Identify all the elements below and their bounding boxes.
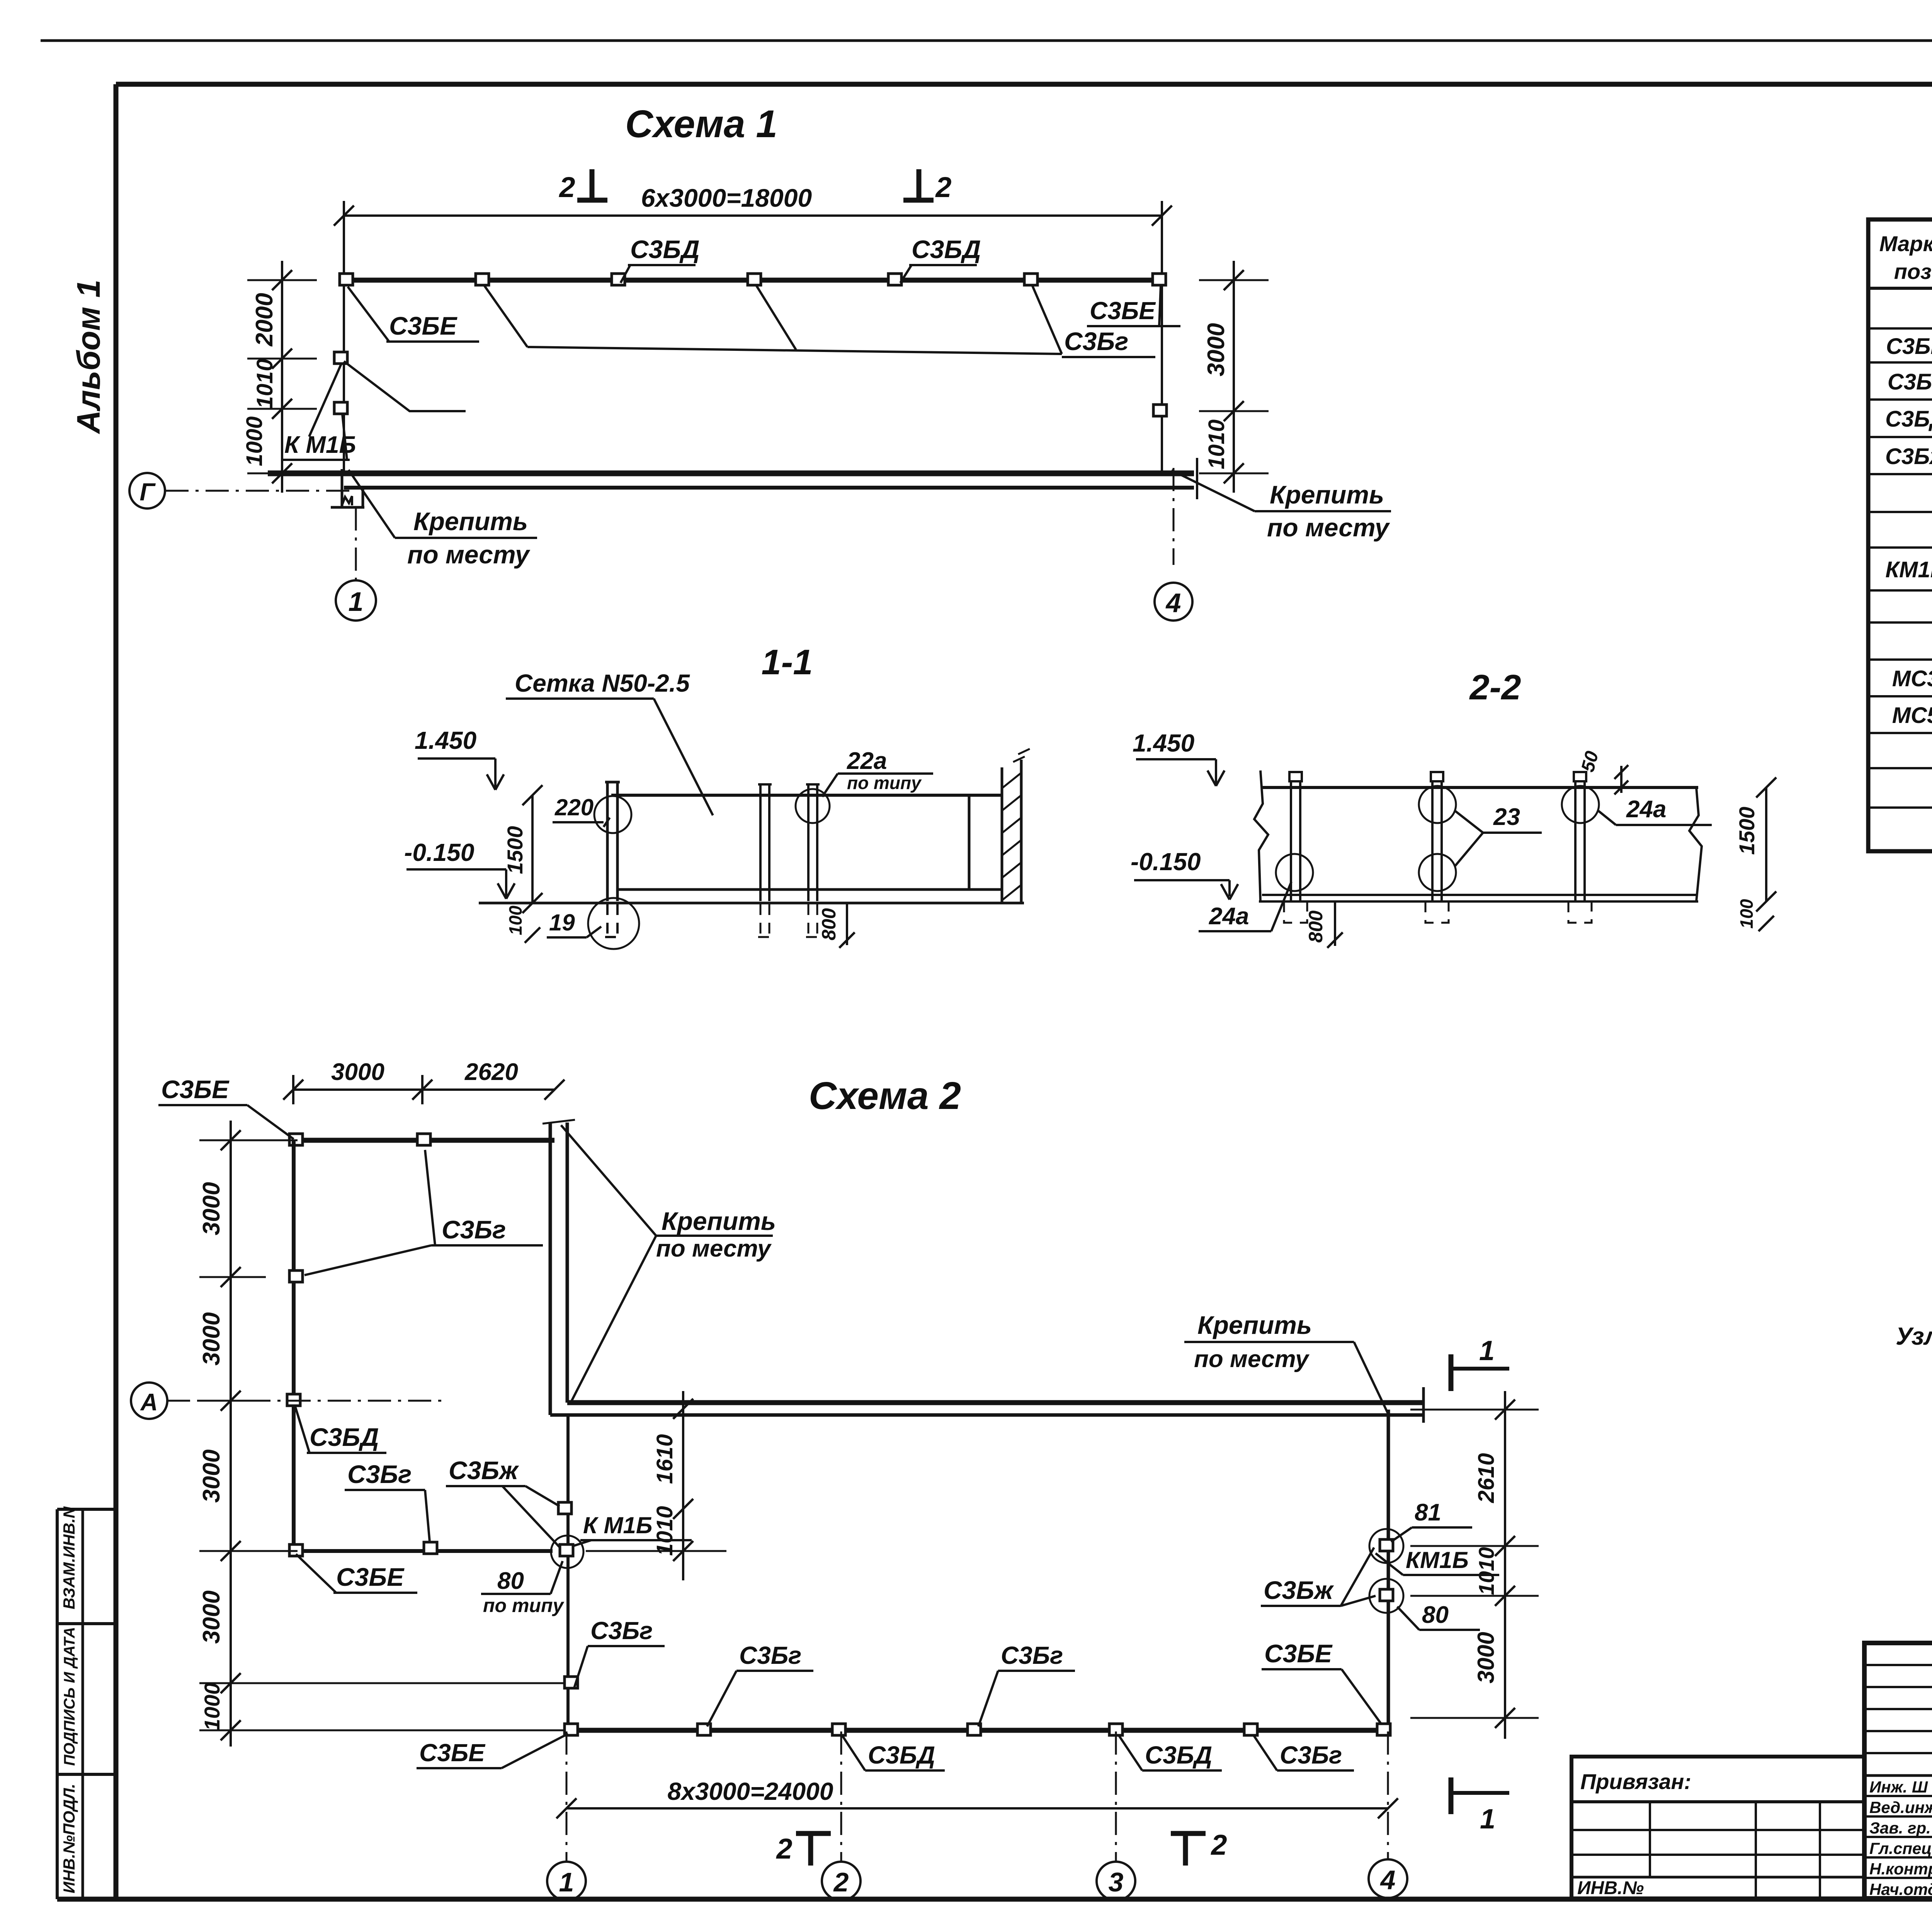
svg-text:Сетка N50-2.5: Сетка N50-2.5 bbox=[515, 669, 690, 697]
svg-text:800: 800 bbox=[1305, 910, 1327, 943]
section 2-2 dim 100 bbox=[1759, 916, 1774, 931]
svg-text:100: 100 bbox=[1736, 899, 1757, 929]
schema 1 bottom wall second line bbox=[344, 486, 1194, 490]
svg-text:Зав. гр.: Зав. гр. bbox=[1869, 1819, 1931, 1837]
section 2-2 circle post1 bottom bbox=[1276, 854, 1313, 891]
svg-text:Схема 2: Схема 2 bbox=[809, 1074, 961, 1117]
section 1-1 circle at third post bbox=[796, 789, 830, 823]
schema 2 left fence posts bbox=[289, 1270, 303, 1282]
svg-text:80: 80 bbox=[497, 1568, 524, 1594]
section 1-1 third post bbox=[807, 784, 810, 901]
schema 2 left dimension line bbox=[230, 1121, 232, 1747]
svg-text:1010: 1010 bbox=[1474, 1547, 1498, 1595]
section 1-1 mesh bottom rail bbox=[617, 888, 1002, 891]
section 1-1 dim 100 bbox=[525, 927, 540, 943]
svg-text:Крепить: Крепить bbox=[662, 1207, 776, 1235]
schema 2 left fence vertical bbox=[292, 1140, 296, 1551]
schema 1 bottom wall thick line bbox=[268, 471, 1194, 476]
svg-text:КМ1Б: КМ1Б bbox=[1885, 557, 1932, 582]
title block small grid rows upper bbox=[1864, 1664, 1932, 1666]
svg-text:2620: 2620 bbox=[464, 1059, 518, 1085]
svg-text:Схема 1: Схема 1 bbox=[625, 102, 777, 146]
schema 2 bottom fence posts bbox=[565, 1724, 578, 1735]
svg-text:3000: 3000 bbox=[1473, 1632, 1499, 1683]
schema 1 gate bracket bottom left bbox=[341, 469, 344, 507]
schema 2 right fence vertical bbox=[1387, 1410, 1390, 1730]
schema 2 long horizontal upper line bbox=[567, 1400, 1423, 1405]
svg-text:Крепить: Крепить bbox=[413, 507, 528, 536]
section 2-2 left break line bbox=[1254, 770, 1268, 901]
privyazan grid rows bbox=[1571, 1829, 1864, 1831]
svg-text:по месту: по месту bbox=[1194, 1346, 1310, 1372]
svg-text:по типу: по типу bbox=[483, 1595, 565, 1616]
svg-text:3000: 3000 bbox=[1203, 323, 1230, 376]
svg-text:по месту: по месту bbox=[407, 540, 531, 569]
section 2-2 circle post3 top bbox=[1562, 786, 1599, 823]
svg-text:С3Бг: С3Бг bbox=[1888, 369, 1932, 395]
svg-text:Гл.спец.: Гл.спец. bbox=[1869, 1839, 1932, 1857]
schema 2 bottom fence line bbox=[568, 1728, 1388, 1733]
schema 1 gate leaf line bbox=[344, 361, 466, 411]
section 1-1 wall hatched bbox=[1001, 767, 1003, 903]
svg-text:С3Бж: С3Бж bbox=[1885, 444, 1932, 469]
schema 2 gate double vertical right bbox=[566, 1122, 569, 1403]
svg-text:1010: 1010 bbox=[252, 359, 277, 408]
schema 1 right dimension line bbox=[1233, 261, 1235, 493]
svg-text:МС5: МС5 bbox=[1892, 703, 1932, 728]
svg-text:МС3: МС3 bbox=[1892, 666, 1932, 691]
svg-text:81: 81 bbox=[1415, 1499, 1441, 1526]
svg-text:С3БЕ: С3БЕ bbox=[389, 311, 457, 340]
svg-text:19: 19 bbox=[549, 910, 575, 935]
svg-text:2: 2 bbox=[935, 171, 951, 203]
privyazan box border bbox=[1571, 1757, 1864, 1898]
svg-text:3000: 3000 bbox=[198, 1590, 225, 1644]
svg-text:2: 2 bbox=[833, 1867, 849, 1897]
schema 2 section mark 2 left bbox=[808, 1833, 813, 1866]
svg-text:1500: 1500 bbox=[1735, 807, 1759, 855]
schema 1 axis circle 1 bbox=[336, 580, 376, 621]
schema 1 fence left vertical bbox=[343, 206, 345, 474]
svg-text:С3БД: С3БД bbox=[630, 235, 700, 264]
schema 1 gate posts left bbox=[334, 352, 347, 364]
schema 2 axis A dash-dot bbox=[167, 1400, 448, 1402]
svg-text:1010: 1010 bbox=[652, 1506, 677, 1556]
schema 2 axis circle 2 bbox=[840, 1731, 842, 1862]
schema 1 top dimension line 6x3000=18000 bbox=[344, 214, 1162, 217]
svg-text:Н.контр.: Н.контр. bbox=[1869, 1860, 1932, 1878]
svg-text:С3БЕ: С3БЕ bbox=[419, 1739, 486, 1767]
schema 2 long horizontal lower line bbox=[550, 1413, 1423, 1417]
svg-text:1010: 1010 bbox=[1204, 419, 1229, 469]
schema 2 upper fence top line bbox=[294, 1138, 554, 1143]
schema 2 lower-left fence horizontal bbox=[294, 1549, 553, 1553]
section 2-2 dim 800 bbox=[1334, 901, 1336, 946]
svg-text:4: 4 bbox=[1380, 1865, 1396, 1895]
svg-text:С3Бж: С3Бж bbox=[1264, 1576, 1334, 1604]
svg-text:2-2: 2-2 bbox=[1469, 668, 1521, 707]
svg-text:С3БД: С3БД bbox=[912, 235, 981, 264]
section 1-1 dim 800 bbox=[846, 903, 848, 945]
left stamp strip boxes bbox=[57, 1508, 116, 1511]
svg-text:1000: 1000 bbox=[242, 416, 267, 466]
section 1-1 middle post bbox=[759, 784, 762, 901]
svg-text:Вед.инж: Вед.инж bbox=[1869, 1798, 1932, 1816]
svg-text:по месту: по месту bbox=[656, 1235, 772, 1262]
svg-text:24а: 24а bbox=[1626, 796, 1666, 823]
privyazan grid columns bbox=[1649, 1802, 1651, 1877]
privyazan header line bbox=[1571, 1800, 1864, 1803]
section 2-2 ground double line bbox=[1262, 894, 1696, 896]
svg-text:8х3000=24000: 8х3000=24000 bbox=[668, 1777, 833, 1805]
section 2-2 right break line bbox=[1689, 787, 1702, 901]
section 1-1 mesh right edge bbox=[968, 795, 971, 889]
svg-text:1: 1 bbox=[1479, 1335, 1495, 1366]
svg-text:-0.150: -0.150 bbox=[1131, 848, 1201, 876]
sheet top edge line bbox=[41, 39, 1932, 42]
svg-text:КМ1Б: КМ1Б bbox=[1406, 1547, 1469, 1573]
svg-text:-0.150: -0.150 bbox=[404, 838, 474, 866]
title block signature rows bbox=[1864, 1795, 1932, 1797]
drawing frame bbox=[114, 84, 119, 1899]
schema 2 axis circle 4 bbox=[1387, 1731, 1389, 1859]
svg-text:100: 100 bbox=[505, 905, 526, 935]
spec table header bottom line bbox=[1868, 287, 1932, 290]
svg-text:1610: 1610 bbox=[652, 1434, 677, 1484]
svg-text:220: 220 bbox=[554, 794, 594, 820]
schema 2 section mark 1 bottom bbox=[1449, 1777, 1454, 1814]
schema 2 gate break top bbox=[543, 1120, 575, 1124]
svg-text:ПОДПИСЬ И ДАТА: ПОДПИСЬ И ДАТА bbox=[61, 1627, 78, 1766]
svg-text:3000: 3000 bbox=[331, 1059, 384, 1085]
schema 2 gate lower vertical bbox=[566, 1415, 570, 1730]
svg-text:С3БЕ: С3БЕ bbox=[1264, 1639, 1333, 1668]
svg-text:Крепить: Крепить bbox=[1197, 1311, 1312, 1339]
svg-text:1: 1 bbox=[1480, 1804, 1495, 1835]
svg-text:6х3000=18000: 6х3000=18000 bbox=[641, 184, 812, 212]
schema 1 left dimension line bbox=[281, 261, 283, 493]
svg-text:1.450: 1.450 bbox=[415, 726, 476, 754]
schema 2 top dimension line bbox=[293, 1088, 554, 1091]
schema 2 section mark 1 top bbox=[1449, 1354, 1454, 1391]
svg-text:С3БЕ: С3БЕ bbox=[1886, 334, 1932, 359]
svg-text:С3БЕ: С3БЕ bbox=[336, 1563, 405, 1591]
title block outer border bbox=[1864, 1643, 1932, 1898]
svg-text:ИНВ.№ПОДЛ.: ИНВ.№ПОДЛ. bbox=[60, 1784, 78, 1893]
svg-text:1-1: 1-1 bbox=[762, 643, 813, 682]
svg-text:4: 4 bbox=[1165, 588, 1181, 618]
schema 2 right circled posts bbox=[1369, 1529, 1403, 1563]
svg-text:С3Бг: С3Бг bbox=[739, 1641, 801, 1669]
svg-text:22а: 22а bbox=[847, 748, 887, 774]
svg-text:С3Бг: С3Бг bbox=[347, 1460, 412, 1488]
schema 1 section mark 2 left bbox=[590, 169, 595, 200]
schema 2 gate dimension line bbox=[682, 1391, 684, 1580]
schema 2 bottom dimension line 8x3000 bbox=[566, 1807, 1388, 1810]
svg-text:Узлы замаркированы по серии: Узлы замаркированы по серии 3.017-1 вып.… bbox=[1896, 1322, 1932, 1350]
svg-text:3000: 3000 bbox=[198, 1312, 225, 1366]
svg-text:поз.: поз. bbox=[1894, 259, 1932, 284]
svg-text:К М1Б: К М1Б bbox=[583, 1512, 652, 1538]
svg-text:Марка,: Марка, bbox=[1879, 231, 1932, 256]
schema 1 bottom wall right end tick bbox=[1196, 458, 1198, 499]
schema 1 axis G circle bbox=[129, 473, 165, 509]
svg-text:С3Бг: С3Бг bbox=[590, 1617, 653, 1645]
section 1-1 post circle upper bbox=[594, 796, 631, 833]
schema 1 fence top line bbox=[344, 278, 1162, 283]
svg-text:С3БД: С3БД bbox=[1145, 1741, 1212, 1769]
svg-text:Г: Г bbox=[139, 478, 156, 506]
schema 1 section mark 2 right bbox=[917, 169, 922, 200]
section 1-1 ground line bbox=[479, 902, 1024, 905]
svg-text:Нач.отд.: Нач.отд. bbox=[1869, 1880, 1932, 1898]
section 2-2 circle post2 top bbox=[1419, 786, 1456, 823]
svg-text:ИНВ.№: ИНВ.№ bbox=[1577, 1878, 1644, 1898]
schema 1 axis 4 dash-dot bbox=[1173, 468, 1175, 565]
svg-text:1500: 1500 bbox=[503, 826, 527, 874]
svg-text:1.450: 1.450 bbox=[1133, 729, 1194, 757]
svg-text:С3Бг: С3Бг bbox=[442, 1215, 506, 1244]
svg-text:С3БД: С3БД bbox=[868, 1741, 935, 1769]
section 2-2 posts bbox=[1290, 781, 1292, 900]
section 2-2 top rail bbox=[1262, 786, 1698, 789]
svg-text:2610: 2610 bbox=[1474, 1453, 1499, 1503]
svg-text:по месту: по месту bbox=[1267, 513, 1390, 542]
section 1-1 left post bbox=[606, 782, 609, 901]
svg-text:С3Бж: С3Бж bbox=[449, 1456, 519, 1485]
schema 2 section mark 2 right bbox=[1183, 1833, 1188, 1866]
schema 2 upper fence posts bbox=[289, 1134, 303, 1145]
schema 1 axis 1 dash-dot bbox=[355, 507, 357, 580]
schema 1 post right lower bbox=[1153, 405, 1167, 416]
schema 2 gate S3Bzh post bbox=[558, 1502, 571, 1514]
svg-text:С3Бг: С3Бг bbox=[1064, 327, 1128, 355]
section 2-2 dim 1500 bbox=[1765, 787, 1767, 901]
spec table row lines marka column bbox=[1868, 327, 1932, 330]
svg-text:ВЗАМ.ИНВ.N: ВЗАМ.ИНВ.N bbox=[60, 1506, 78, 1609]
schema 2 axis circle 3 bbox=[1115, 1731, 1117, 1862]
svg-text:2: 2 bbox=[558, 171, 575, 203]
svg-text:А: А bbox=[140, 1389, 158, 1416]
schema 2 axis A circle bbox=[131, 1383, 167, 1419]
svg-text:1000: 1000 bbox=[200, 1683, 224, 1731]
svg-text:3: 3 bbox=[1109, 1867, 1124, 1897]
schema 2 gate double vertical left bbox=[549, 1122, 552, 1415]
svg-text:С3Бг: С3Бг bbox=[1001, 1641, 1063, 1669]
svg-text:2000: 2000 bbox=[251, 293, 278, 347]
schema 2 post on lower vertical bbox=[565, 1677, 578, 1688]
schema 1 axis circle 4 bbox=[1155, 583, 1192, 621]
schema 2 gate circled post bbox=[560, 1544, 573, 1556]
svg-text:Крепить: Крепить bbox=[1270, 480, 1384, 509]
schema 2 long horizontal right end tick bbox=[1422, 1387, 1425, 1423]
svg-text:С3Бг: С3Бг bbox=[1280, 1741, 1342, 1769]
schema 2 right fence posts bbox=[1380, 1539, 1393, 1551]
schema 2 right dimension line bbox=[1504, 1391, 1506, 1739]
schema 2 axis circle 1 bbox=[566, 1731, 568, 1862]
svg-text:3000: 3000 bbox=[198, 1449, 225, 1503]
svg-text:3000: 3000 bbox=[198, 1182, 225, 1235]
svg-text:1: 1 bbox=[559, 1867, 574, 1897]
section 2-2 circle post2 bottom bbox=[1419, 854, 1456, 891]
schema 1 axis G dash-dot line bbox=[165, 490, 354, 492]
svg-text:С3БЕ: С3БЕ bbox=[161, 1075, 230, 1104]
section 1-1 top rail bbox=[611, 794, 1002, 797]
svg-text:Привязан:: Привязан: bbox=[1580, 1769, 1691, 1794]
section 1-1 dim 1500 bbox=[531, 795, 534, 903]
svg-text:80: 80 bbox=[1422, 1602, 1449, 1628]
schema 1 fence right vertical bbox=[1161, 206, 1163, 474]
svg-text:2: 2 bbox=[1210, 1829, 1227, 1861]
spec table outer border bbox=[1868, 219, 1932, 851]
svg-text:С3БЕ: С3БЕ bbox=[1090, 297, 1156, 325]
section 1-1 foundation circle bbox=[588, 898, 639, 949]
svg-text:23: 23 bbox=[1493, 804, 1520, 830]
schema 2 lower-left fence mid post bbox=[424, 1542, 437, 1554]
svg-text:24а: 24а bbox=[1209, 903, 1249, 930]
svg-text:С3БД: С3БД bbox=[310, 1423, 379, 1451]
svg-text:800: 800 bbox=[818, 908, 840, 940]
svg-text:по типу: по типу bbox=[847, 773, 922, 793]
svg-text:Инж. Ш: Инж. Ш bbox=[1869, 1778, 1928, 1796]
svg-text:2: 2 bbox=[776, 1833, 792, 1865]
svg-text:С3БД: С3БД bbox=[1885, 406, 1932, 432]
svg-text:Альбом 1: Альбом 1 bbox=[70, 280, 107, 434]
schema 1 fence posts top row bbox=[340, 274, 353, 285]
svg-text:1: 1 bbox=[349, 587, 364, 617]
